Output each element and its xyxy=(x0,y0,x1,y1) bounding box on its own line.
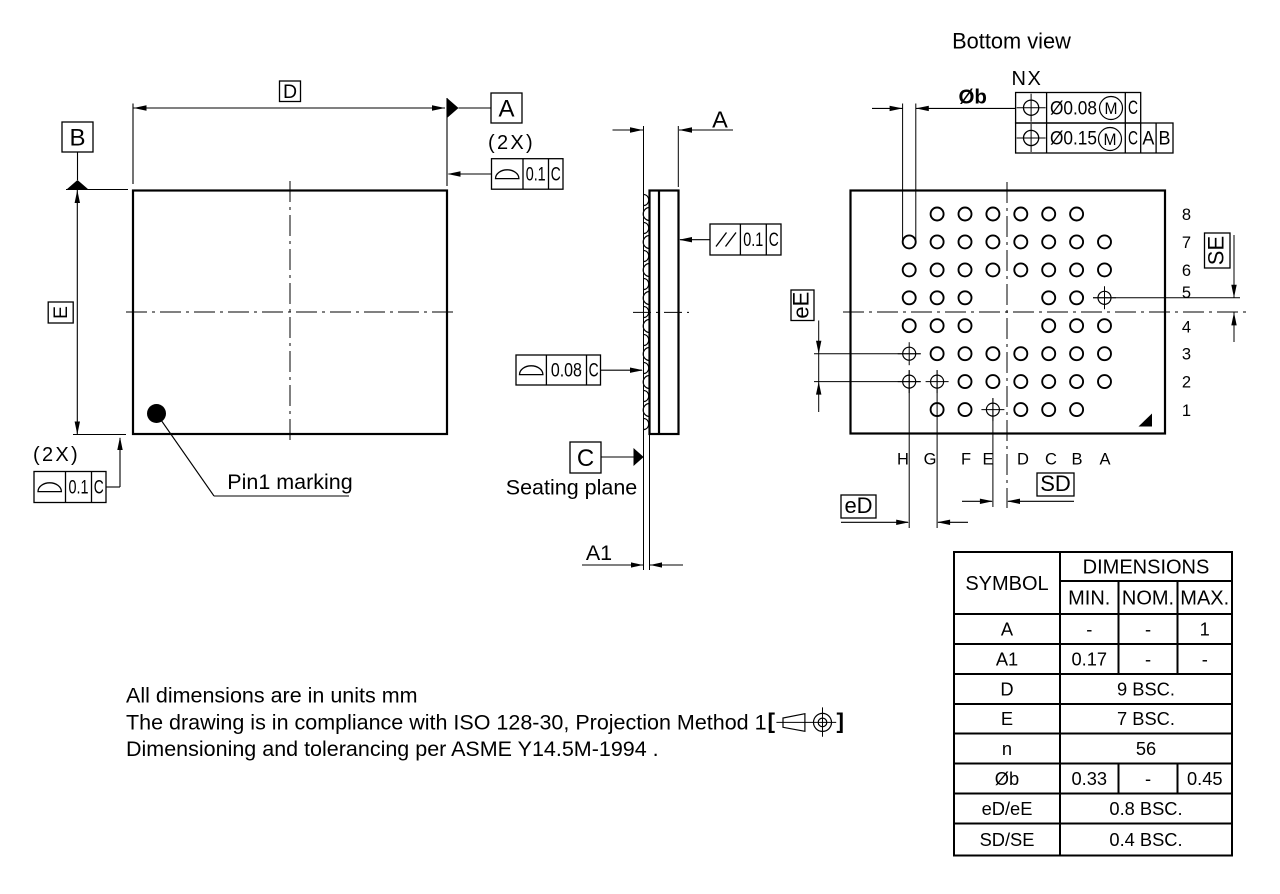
svg-text:1: 1 xyxy=(1182,402,1191,420)
profile tolerance frame 0.1|C (bottom left) xyxy=(34,472,106,503)
toleranced balls drawn as circle-cross targets xyxy=(1098,291,1111,304)
svg-text:B: B xyxy=(1159,129,1171,150)
dimension E: top extension line xyxy=(66,189,128,191)
bottom view horizontal center line xyxy=(843,311,1246,313)
svg-text:A: A xyxy=(1001,618,1014,639)
svg-text:A: A xyxy=(1142,129,1154,150)
datum A box xyxy=(491,93,522,123)
svg-text:Bottom view: Bottom view xyxy=(952,28,1071,53)
dimensions table outer border xyxy=(954,552,1232,856)
extension lines from balls H2/G2 down to eD dimension xyxy=(908,370,910,528)
svg-text:(2X): (2X) xyxy=(488,132,535,154)
datum C connector xyxy=(601,456,634,458)
svg-text:A1: A1 xyxy=(586,541,612,565)
bottom view vertical center line xyxy=(1006,182,1008,508)
datum A: filled triangle xyxy=(447,98,459,118)
svg-text:C: C xyxy=(577,445,594,472)
svg-text:3: 3 xyxy=(1182,346,1191,364)
svg-text:D: D xyxy=(1017,451,1029,469)
svg-text:0.17: 0.17 xyxy=(1071,648,1107,669)
svg-text:9 BSC.: 9 BSC. xyxy=(1117,678,1175,699)
svg-text:C: C xyxy=(551,165,561,186)
svg-text:Ø0.08: Ø0.08 xyxy=(1050,98,1097,120)
svg-text:C: C xyxy=(94,478,104,499)
top view: package body outline xyxy=(133,191,447,435)
leader arrow from // frame to body edge xyxy=(680,239,710,241)
datum C filled triangle xyxy=(634,448,644,466)
first angle projection symbol xyxy=(783,714,805,732)
svg-text:Seating plane: Seating plane xyxy=(506,476,638,500)
svg-text:n: n xyxy=(1002,738,1012,759)
position tolerance frame row 1 xyxy=(1016,93,1141,124)
side view: body bottom extension to seating area xyxy=(649,434,651,570)
svg-text:0.1: 0.1 xyxy=(526,165,546,186)
svg-text:[: [ xyxy=(768,709,776,734)
svg-text:]: ] xyxy=(837,709,845,734)
svg-text:SE: SE xyxy=(1204,236,1229,265)
dimension A: dimension line and arrows xyxy=(613,129,644,131)
svg-text:-: - xyxy=(1145,618,1151,639)
eE label box (rotated) xyxy=(791,290,814,321)
dimension E: bottom extension line xyxy=(73,434,126,436)
table grid lines xyxy=(1060,580,1232,582)
svg-text:C: C xyxy=(589,360,599,381)
leader from bottom-left frame up to bottom edge xyxy=(106,486,120,488)
svg-text:eE: eE xyxy=(789,292,814,319)
svg-text:NX: NX xyxy=(1012,68,1043,90)
svg-text:1: 1 xyxy=(1200,618,1210,639)
svg-text:B: B xyxy=(69,125,85,152)
svg-text:eD: eD xyxy=(844,493,872,518)
svg-text:0.33: 0.33 xyxy=(1071,768,1107,789)
profile tolerance frame 0.1|C (top right) xyxy=(492,159,564,190)
svg-text:E: E xyxy=(982,451,993,469)
svg-text:M: M xyxy=(1105,100,1118,118)
svg-text:Ø0.15: Ø0.15 xyxy=(1050,128,1097,150)
eE dimension line and arrows xyxy=(818,321,820,413)
dimension A: right extension line xyxy=(677,126,679,187)
svg-text:(2X): (2X) xyxy=(33,444,80,466)
svg-text:D: D xyxy=(1000,678,1013,699)
svg-text:0.1: 0.1 xyxy=(743,230,763,251)
svg-text:7 BSC.: 7 BSC. xyxy=(1117,708,1175,729)
Pin1 marking leader line xyxy=(161,420,214,496)
leader arrow from 0.08 frame to ball line xyxy=(601,369,643,371)
svg-text:C: C xyxy=(1128,129,1138,150)
svg-text:-: - xyxy=(1145,648,1151,669)
svg-text:M: M xyxy=(1104,131,1117,149)
dimension D: extension lines xyxy=(132,104,134,185)
datum B: filled triangle xyxy=(67,180,89,190)
svg-text:E: E xyxy=(50,306,72,319)
svg-text:SYMBOL: SYMBOL xyxy=(965,573,1048,595)
extension lines from balls H3/H2 to eE dimension xyxy=(814,353,921,355)
svg-text:A1: A1 xyxy=(996,648,1018,669)
svg-text:-: - xyxy=(1202,648,1208,669)
svg-text:NOM.: NOM. xyxy=(1122,588,1174,610)
svg-text:F: F xyxy=(961,451,971,469)
svg-text:B: B xyxy=(1071,451,1082,469)
leader arrow from 0.1|C frame to edge xyxy=(449,173,492,175)
SD dimension line and arrows xyxy=(962,500,992,502)
side view: solder ball arc profiles xyxy=(643,208,649,221)
svg-text:-: - xyxy=(1086,618,1092,639)
side view: body outline xyxy=(650,191,679,435)
dimension E label box (rotated) xyxy=(48,302,73,323)
svg-text:0.8 BSC.: 0.8 BSC. xyxy=(1109,798,1182,819)
svg-text:SD: SD xyxy=(1040,471,1071,496)
svg-text:5: 5 xyxy=(1182,284,1191,302)
svg-text:8: 8 xyxy=(1182,206,1191,224)
dimension D: dimension line with arrows xyxy=(134,107,446,109)
datum B: leader line xyxy=(77,152,79,180)
svg-text:MIN.: MIN. xyxy=(1068,588,1110,610)
eD dimension line and arrows xyxy=(841,521,908,523)
svg-text:A: A xyxy=(1099,451,1110,469)
svg-text:2: 2 xyxy=(1182,374,1191,392)
svg-text:0.45: 0.45 xyxy=(1187,768,1223,789)
svg-text:4: 4 xyxy=(1182,319,1191,337)
parallelism frame //|0.1|C xyxy=(710,224,781,255)
svg-text:MAX.: MAX. xyxy=(1180,588,1229,610)
dimension A1 line and arrows xyxy=(582,564,643,566)
svg-text:0.4 BSC.: 0.4 BSC. xyxy=(1109,829,1182,850)
SD label box xyxy=(1037,473,1074,496)
svg-text:7: 7 xyxy=(1182,234,1191,252)
side view horizontal center line xyxy=(633,311,689,313)
svg-text:The drawing is in compliance w: The drawing is in compliance with ISO 12… xyxy=(126,711,767,735)
svg-text:E: E xyxy=(1001,708,1013,729)
svg-text:Øb: Øb xyxy=(958,86,986,109)
svg-text:A: A xyxy=(498,96,514,123)
svg-text:C: C xyxy=(769,230,779,251)
svg-text:C: C xyxy=(1045,451,1057,469)
bottom view: pin1 corner triangle xyxy=(1139,414,1153,427)
svg-text:Dimensioning and tolerancing p: Dimensioning and tolerancing per ASME Y1… xyxy=(126,737,659,761)
svg-text:C: C xyxy=(1128,98,1138,119)
eD label box xyxy=(841,495,876,518)
dimension D label box xyxy=(280,81,301,102)
Ob tangent extension lines from ball H7 xyxy=(902,104,904,242)
extension line from ball E1 down to SD dimension xyxy=(992,398,994,507)
datum C box xyxy=(570,442,601,473)
top view vertical center line xyxy=(289,181,291,443)
svg-text:SD/SE: SD/SE xyxy=(980,829,1035,850)
top view horizontal center line xyxy=(126,311,453,313)
svg-text:-: - xyxy=(1145,768,1151,789)
svg-text:H: H xyxy=(897,451,909,469)
bottom view: solder ball grid (56 balls) xyxy=(931,208,944,221)
Pin1 marking dot xyxy=(147,404,166,423)
dimension E: dimension line with arrows xyxy=(76,190,78,435)
datum B box xyxy=(62,122,93,152)
svg-text:0.1: 0.1 xyxy=(69,478,89,499)
svg-text:A: A xyxy=(712,107,728,133)
svg-text:DIMENSIONS: DIMENSIONS xyxy=(1083,557,1210,579)
svg-text:D: D xyxy=(283,81,297,103)
svg-text:All dimensions are in units mm: All dimensions are in units mm xyxy=(126,684,418,708)
svg-text:56: 56 xyxy=(1136,738,1156,759)
svg-text:eD/eE: eD/eE xyxy=(982,798,1033,819)
SE label box (rotated) xyxy=(1205,233,1231,268)
Ob dimension line and arrows xyxy=(872,107,903,109)
bottom view: package outline xyxy=(851,191,1166,434)
svg-text:Pin1 marking: Pin1 marking xyxy=(227,470,352,494)
extension line from ball A5 to SE dimension xyxy=(1093,297,1240,299)
svg-text:Øb: Øb xyxy=(995,768,1019,789)
position tolerance frame row 2 xyxy=(1016,123,1173,153)
side view: ball tip / seating plane line xyxy=(643,126,645,570)
side view: inner substrate line xyxy=(658,191,660,435)
SE dimension line and arrows xyxy=(1233,235,1235,298)
datum A: connector line xyxy=(459,107,492,109)
svg-text:0.08: 0.08 xyxy=(551,360,582,381)
svg-text:G: G xyxy=(924,451,937,469)
svg-text:6: 6 xyxy=(1182,262,1191,280)
profile frame 0.08|C (side view) xyxy=(516,355,601,385)
